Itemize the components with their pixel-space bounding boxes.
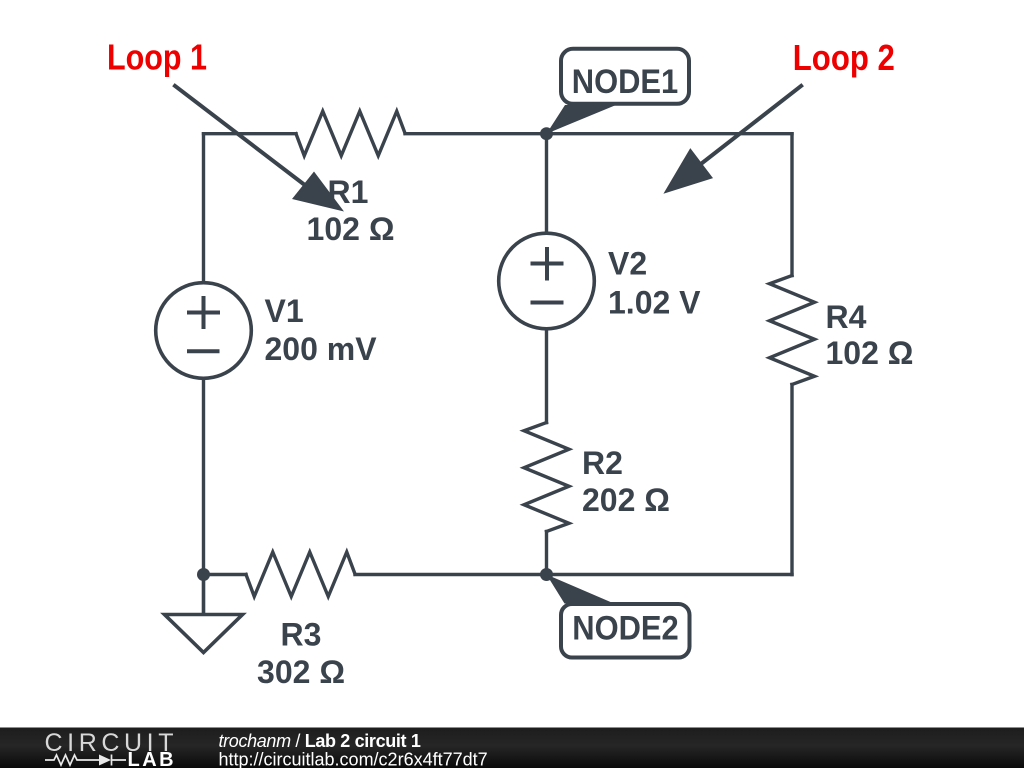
svg-text:trochanm / Lab 2 circuit 1: trochanm / Lab 2 circuit 1 [219,731,421,751]
NODE1 label box [561,49,689,104]
node dot bottom-left junction [197,568,210,581]
node dot NODE2 junction [540,568,553,581]
CircuitLab logo resistor-diode symbol [45,755,126,766]
wire right vertical lower [790,385,793,575]
wire bottom-right segment [355,573,792,576]
NODE1 pointer wedge [547,105,617,134]
wire top-left segment [204,132,297,135]
footer bar [0,728,1024,768]
voltage source V2 [499,233,595,329]
wire middle between V2 and R2 [545,327,548,423]
resistor R3 [246,552,355,597]
svg-text:R4: R4 [826,299,867,335]
svg-text:R3: R3 [281,616,322,652]
svg-text:LAB: LAB [128,749,177,768]
Loop 1 arrow line [173,85,310,189]
voltage source V1 [156,283,252,379]
resistor R2 [524,423,569,532]
wire left vertical upper [202,134,205,285]
svg-text:NODE1: NODE1 [572,63,679,101]
resistor R1 [296,111,405,156]
svg-text:302 Ω: 302 Ω [257,654,345,690]
NODE2 pointer wedge [547,575,615,604]
svg-text:202 Ω: 202 Ω [582,482,670,518]
NODE2 label box [561,604,690,658]
wire left vertical lower [202,377,205,575]
svg-text:R2: R2 [582,445,623,481]
Loop 1 arrowhead [292,172,344,212]
svg-text:1.02 V: 1.02 V [608,285,701,321]
ground [165,575,243,653]
svg-text:200 mV: 200 mV [265,331,378,367]
svg-text:NODE2: NODE2 [572,610,679,648]
wire bottom-left segment [204,573,247,576]
node dot NODE1 junction [540,127,553,140]
svg-text:102 Ω: 102 Ω [826,335,914,371]
svg-text:Loop 2: Loop 2 [793,37,895,78]
V1 minus sign [187,349,220,353]
Loop 2 arrow line [697,85,803,167]
svg-text:http://circuitlab.com/c2r6x4ft: http://circuitlab.com/c2r6x4ft77dt7 [219,750,488,768]
svg-text:V1: V1 [265,293,304,329]
svg-text:102 Ω: 102 Ω [307,211,395,247]
wire right vertical upper [790,134,793,276]
V2 plus sign [531,247,564,281]
wire top-right segment [405,132,792,135]
svg-text:Loop 1: Loop 1 [107,37,207,78]
Loop 2 arrowhead [663,148,713,194]
resistor R4 [770,276,815,385]
svg-text:V2: V2 [608,246,647,282]
V1 plus sign [187,296,220,329]
wire middle vertical upper [545,134,548,236]
V2 minus sign [531,301,564,305]
wire middle below R2 [545,532,548,575]
